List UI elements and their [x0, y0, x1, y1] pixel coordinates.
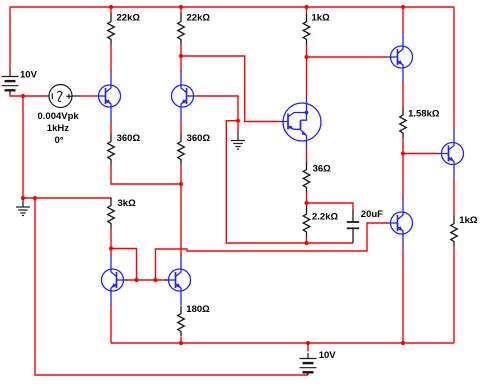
wire rail to 22k R1 top — [110, 7, 112, 14]
svg-text:1.58kΩ: 1.58kΩ — [408, 109, 440, 120]
node 1.58k/Q6 base — [401, 151, 405, 155]
wire darlington emitter to 36 resistor — [306, 150, 308, 162]
wire rail to 22k R2 top — [180, 7, 182, 14]
resistor R5 360 — [178, 134, 185, 165]
resistor R10 1k — [451, 216, 458, 247]
node Q2 collector — [179, 54, 183, 58]
node 180/rail — [179, 341, 183, 345]
svg-text:36Ω: 36Ω — [313, 164, 332, 175]
wire 22k R2 bottom to Q2 collector — [180, 45, 182, 73]
resistor R8 2.2k — [303, 206, 310, 237]
svg-text:10V: 10V — [319, 350, 337, 361]
wire node to Q5 base — [307, 56, 387, 58]
svg-text:22kΩ: 22kΩ — [117, 13, 141, 24]
wire 1k R10 bottom to -10V rail — [453, 247, 455, 344]
node diff tail — [179, 182, 183, 186]
wire 180 bottom to rail — [180, 337, 182, 343]
wire ground node drop to bottom -10V rail — [35, 198, 308, 375]
wire top rail +10V — [10, 6, 454, 8]
resistor R6 3k — [108, 198, 115, 229]
node 3k/Q3 collector — [109, 246, 113, 250]
darlington transistor U1 — [279, 98, 321, 150]
wire 1k R3 bottom node to darlington collector — [306, 45, 308, 99]
wire 360 R5 bottom to tail node — [180, 165, 182, 185]
svg-text:360Ω: 360Ω — [187, 133, 211, 144]
node rail/R1 — [109, 5, 113, 9]
wire -10V rail to battery V2 — [307, 343, 309, 352]
node ground/bias — [21, 196, 25, 200]
node Q3 base tie — [134, 278, 138, 282]
wire Q1 emitter to 360 R4 — [110, 121, 112, 134]
wire mirror base node to Q7 base bias line — [156, 223, 389, 280]
svg-text:1kHz: 1kHz — [47, 123, 69, 134]
transistor Q6 — [438, 129, 464, 179]
wire 1.58k bottom to node — [402, 138, 404, 154]
node 36/2.2k — [304, 201, 308, 205]
AC source V3 — [46, 85, 82, 108]
ground G2 — [231, 133, 245, 150]
wire Q2 base to ground G2 — [197, 96, 238, 134]
wire rail to 1k R3 top — [306, 7, 308, 14]
transistor Q5 — [387, 32, 413, 82]
wire rail right drop to Q6 collector — [453, 7, 455, 129]
svg-text:10V: 10V — [20, 70, 38, 81]
wire Q5 emitter to 1.58k — [402, 82, 404, 108]
capacitor C1 20uF — [347, 210, 359, 243]
svg-text:360Ω: 360Ω — [117, 133, 141, 144]
transistor Q4 — [165, 255, 191, 305]
svg-text:180Ω: 180Ω — [186, 304, 210, 315]
wire feedback node down to 2.2k/cap net H1 — [226, 121, 353, 243]
node 2.2k/cap bottom — [304, 241, 308, 245]
wire node to Q7 collector — [402, 154, 404, 200]
resistor R1 22k — [108, 14, 115, 45]
node drop to -10V — [33, 196, 37, 200]
node Q2 base/ground — [236, 119, 240, 123]
wire 3k bottom to Q3 collector node — [110, 229, 112, 256]
node V1 minus — [21, 94, 25, 98]
wire rail to Q5 collector — [402, 7, 404, 33]
resistor R9 1.58k — [400, 107, 407, 138]
node rail/Q5 — [401, 5, 405, 9]
wire Q3 base to Q4 base — [125, 279, 167, 281]
resistor R2 22k — [178, 14, 185, 45]
wire left drop from rail to battery V1 — [9, 7, 11, 72]
wire 2.2k bottom to H1 net — [306, 237, 308, 243]
battery V2 10V — [300, 353, 317, 375]
wire -10V rail — [111, 342, 454, 344]
transistor Q3 — [102, 255, 128, 305]
svg-text:0°: 0° — [55, 135, 64, 146]
node rail/R3 — [304, 5, 308, 9]
wire tail node down to Q4 collector — [180, 184, 182, 257]
transistor Q1 — [95, 71, 121, 121]
node battery V2/rail — [306, 341, 310, 345]
node rail/R2 — [179, 5, 183, 9]
resistor R11 180 — [178, 306, 185, 337]
wire node V1- down left side to ground node — [22, 96, 24, 198]
svg-text:1kΩ: 1kΩ — [312, 13, 331, 24]
wire 360 R4 bottom to tail node — [111, 165, 181, 185]
wire Q6 emitter to 1k R10 — [453, 179, 455, 216]
node Q4 base tie — [153, 278, 157, 282]
wire 22k R1 bottom to Q1 collector — [110, 45, 112, 72]
svg-text:20uF: 20uF — [361, 209, 383, 220]
svg-text:2.2kΩ: 2.2kΩ — [312, 212, 338, 223]
resistor R3 1k — [303, 14, 310, 45]
wire node to capacitor top — [307, 203, 354, 210]
transistor Q2 — [172, 71, 198, 121]
node Q7 emitter/rail — [401, 341, 405, 345]
wire battery V1 bottom to AC source — [10, 93, 46, 96]
wire node to Q6 base — [403, 153, 438, 155]
ground G1 — [16, 199, 30, 216]
wire AC source to Q1 base — [81, 95, 95, 97]
resistor R4 360 — [108, 134, 115, 165]
svg-text:0.004Vpk: 0.004Vpk — [38, 111, 80, 122]
wire Q7 emitter to -10V rail — [402, 248, 404, 344]
wire Q3 emitter down to -10V rail — [110, 305, 112, 344]
wire 36 bottom to node — [306, 193, 308, 207]
node R3/Q5 base — [304, 55, 308, 59]
svg-text:22kΩ: 22kΩ — [187, 13, 211, 24]
battery V1 10V — [2, 71, 19, 93]
svg-text:1kΩ: 1kΩ — [459, 215, 478, 226]
wire ground node to 3k resistor — [23, 197, 111, 199]
transistor Q7 — [387, 198, 413, 248]
svg-text:3kΩ: 3kΩ — [118, 198, 137, 209]
wire Q3 collector jog to mirror base line — [111, 249, 137, 281]
wire Q2 emitter to 360 R5 — [180, 121, 182, 134]
wire Q2 collector node to darlington base — [181, 56, 279, 122]
resistor R7 36 — [303, 162, 310, 193]
